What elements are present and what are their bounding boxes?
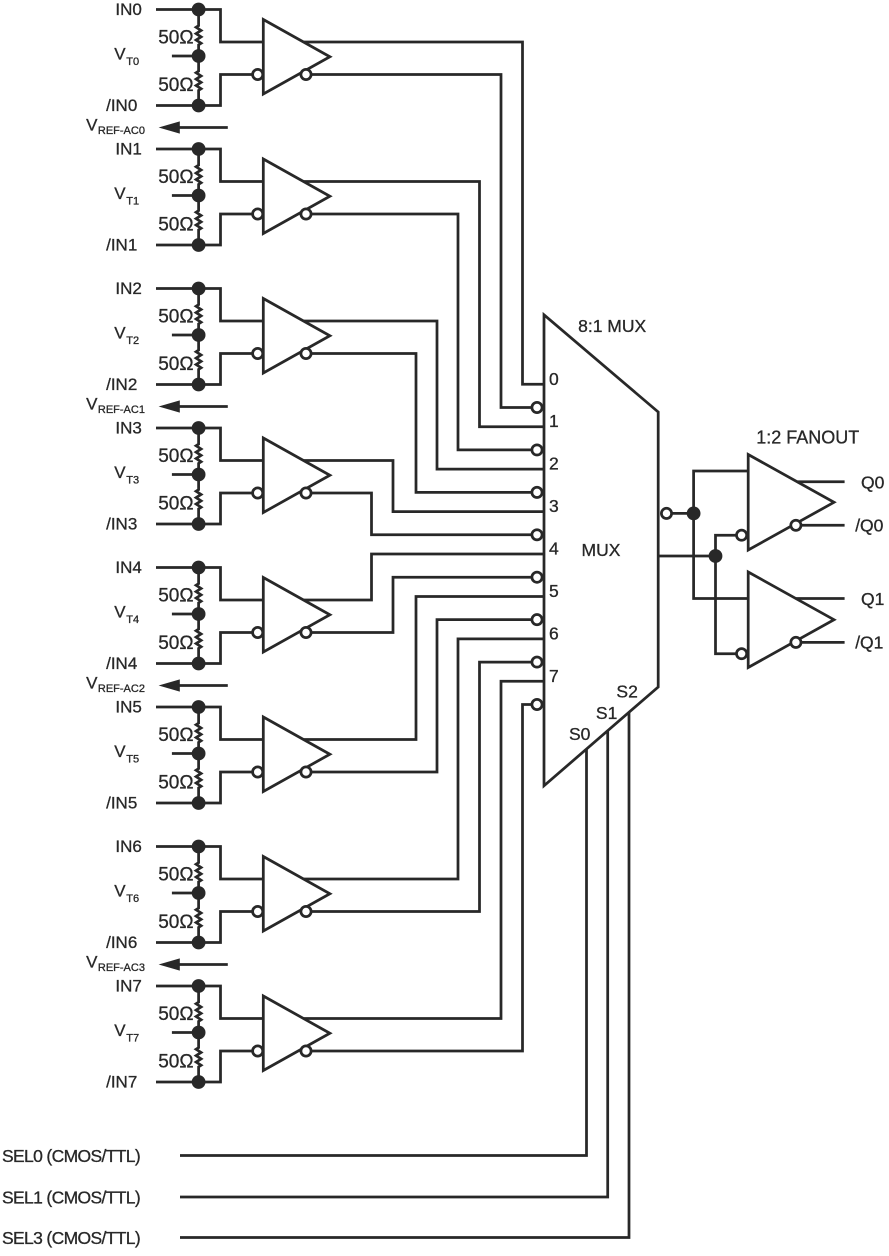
buffer U7 inverted output bubble xyxy=(301,767,311,777)
svg-text:V: V xyxy=(86,395,98,414)
svg-text:SEL0 (CMOS/TTL): SEL0 (CMOS/TTL) xyxy=(2,1146,140,1166)
svg-text:/IN7: /IN7 xyxy=(106,1072,137,1091)
node /IN4 junction xyxy=(192,657,206,671)
node VT0 junction xyxy=(192,49,206,63)
svg-text:REF-AC3: REF-AC3 xyxy=(98,962,145,974)
svg-text:Q0: Q0 xyxy=(861,472,885,492)
wire /IN6 to buffer U8 inverting input xyxy=(156,912,253,943)
buffer U3 inverted output bubble xyxy=(301,209,311,219)
svg-text:T0: T0 xyxy=(126,56,139,68)
wire node B to fanout buffer inverting inputs xyxy=(716,535,737,654)
fanout buffer U11 (Q1) xyxy=(748,572,834,668)
svg-text:V: V xyxy=(114,324,126,343)
wire Q0 output xyxy=(797,480,845,483)
resistor 50Ω lower ch3 xyxy=(196,475,201,525)
wire buffer U8 inverted output to mux input 6 complement xyxy=(311,662,542,911)
resistor 50Ω lower ch1 xyxy=(196,196,201,246)
wire VT5 stub xyxy=(172,752,199,755)
svg-text:S2: S2 xyxy=(616,682,637,702)
wire VT0 stub xyxy=(172,55,199,58)
node IN4 junction xyxy=(192,561,206,575)
wire mux true output to node B xyxy=(658,555,715,558)
fanout buffer U10 (Q0) xyxy=(748,455,834,551)
svg-text:IN6: IN6 xyxy=(115,837,141,856)
wire buffer U2 inverted output to mux input 0 complement xyxy=(311,75,542,408)
buffer U9 inverted output bubble xyxy=(301,1046,311,1056)
mux U1 body (8:1 MUX trapezoid) xyxy=(544,315,658,786)
wire buffer U6 inverted output to mux input 4 complement xyxy=(311,577,542,632)
buffer U4 (differential input buffer ch2) xyxy=(263,299,330,374)
svg-text:/IN2: /IN2 xyxy=(106,375,137,394)
svg-text:V: V xyxy=(114,742,126,761)
wire Q1 output xyxy=(796,597,845,600)
svg-text:MUX: MUX xyxy=(582,540,621,560)
svg-text:V: V xyxy=(86,674,98,693)
node IN0 junction xyxy=(192,3,206,17)
svg-text:50Ω: 50Ω xyxy=(158,586,193,607)
svg-text:1:2 FANOUT: 1:2 FANOUT xyxy=(756,427,859,447)
wire /IN3 to buffer U5 inverting input xyxy=(156,493,253,524)
buffer U4 inverted output bubble xyxy=(301,348,311,358)
buffer U2 inverted output bubble xyxy=(301,69,311,79)
buffer U8 (differential input buffer ch6) xyxy=(263,857,330,932)
wire buffer U9 inverted output to mux input 7 complement xyxy=(311,705,542,1051)
wire VT6 stub xyxy=(172,892,199,895)
wire SEL1 to mux S1 xyxy=(180,731,608,1197)
svg-text:V: V xyxy=(86,116,98,135)
wire VT7 stub xyxy=(172,1031,199,1034)
VREF-AC0 arrowhead xyxy=(159,121,180,133)
wire IN0 to buffer U2 noninverting input xyxy=(156,10,263,43)
svg-text:T6: T6 xyxy=(126,893,139,905)
svg-text:50Ω: 50Ω xyxy=(158,494,193,515)
wire VREF-AC1 arrow line xyxy=(177,405,228,408)
mux input 5 complement bubble xyxy=(532,615,542,625)
svg-text:50Ω: 50Ω xyxy=(158,725,193,746)
buffer U2 inverting input bubble xyxy=(253,69,263,79)
wire IN6 to buffer U8 noninverting input xyxy=(156,847,263,880)
svg-text:/IN5: /IN5 xyxy=(106,793,137,812)
wire VT3 stub xyxy=(172,473,199,476)
svg-text:SEL3 (CMOS/TTL): SEL3 (CMOS/TTL) xyxy=(2,1228,140,1248)
svg-text:T7: T7 xyxy=(126,1032,139,1044)
svg-text:4: 4 xyxy=(549,539,559,559)
resistor 50Ω upper ch0 xyxy=(196,10,201,57)
node A junction xyxy=(687,507,701,521)
node /IN5 junction xyxy=(192,796,206,810)
svg-text:IN3: IN3 xyxy=(115,418,141,437)
resistor 50Ω upper ch5 xyxy=(196,707,201,754)
buffer U7 (differential input buffer ch5) xyxy=(263,717,330,792)
resistor 50Ω lower ch2 xyxy=(196,335,201,385)
svg-text:IN5: IN5 xyxy=(115,697,141,716)
wire VT4 stub xyxy=(172,613,199,616)
svg-text:50Ω: 50Ω xyxy=(158,865,193,886)
wire /IN0 to buffer U2 inverting input xyxy=(156,75,253,106)
wire buffer U4 inverted output to mux input 2 complement xyxy=(311,354,542,493)
svg-text:IN7: IN7 xyxy=(115,976,141,995)
svg-text:/Q1: /Q1 xyxy=(855,633,883,653)
buffer U4 inverting input bubble xyxy=(253,348,263,358)
svg-text:50Ω: 50Ω xyxy=(158,773,193,794)
buffer U6 inverting input bubble xyxy=(253,627,263,637)
wire node A to fanout buffer inputs xyxy=(694,471,749,599)
svg-text:T3: T3 xyxy=(126,474,139,486)
svg-text:V: V xyxy=(114,1021,126,1040)
wire buffer U2 true output to mux input 0 xyxy=(304,42,545,384)
buffer U5 inverting input bubble xyxy=(253,488,263,498)
svg-text:T5: T5 xyxy=(126,753,139,765)
resistor 50Ω lower ch6 xyxy=(196,893,201,943)
resistor 50Ω lower ch5 xyxy=(196,754,201,804)
node IN6 junction xyxy=(192,840,206,854)
wire VREF-AC0 arrow line xyxy=(177,126,228,129)
wire IN2 to buffer U4 noninverting input xyxy=(156,289,263,322)
wire buffer U4 true output to mux input 2 xyxy=(304,321,545,469)
svg-text:REF-AC0: REF-AC0 xyxy=(98,125,145,137)
mux input 7 complement bubble xyxy=(532,699,542,709)
node VT6 junction xyxy=(192,886,206,900)
mux input 2 complement bubble xyxy=(532,487,542,497)
wire buffer U8 true output to mux input 6 xyxy=(304,639,545,879)
wire buffer U7 true output to mux input 5 xyxy=(304,596,545,739)
wire buffer U3 inverted output to mux input 1 complement xyxy=(311,214,542,450)
node /IN2 junction xyxy=(192,378,206,392)
node VT1 junction xyxy=(192,189,206,203)
wire /Q1 output xyxy=(801,641,845,644)
wire /IN5 to buffer U7 inverting input xyxy=(156,772,253,803)
wire VREF-AC3 arrow line xyxy=(177,963,228,966)
svg-text:V: V xyxy=(86,953,98,972)
svg-text:V: V xyxy=(114,184,126,203)
fanout buffer U11 inverted output bubble xyxy=(791,637,801,647)
svg-text:8:1 MUX: 8:1 MUX xyxy=(578,316,646,336)
buffer U9 inverting input bubble xyxy=(253,1046,263,1056)
svg-text:SEL1 (CMOS/TTL): SEL1 (CMOS/TTL) xyxy=(2,1188,140,1208)
wire VREF-AC2 arrow line xyxy=(177,684,228,687)
svg-text:REF-AC1: REF-AC1 xyxy=(98,404,145,416)
svg-text:S0: S0 xyxy=(569,724,591,744)
svg-text:0: 0 xyxy=(549,369,559,389)
svg-text:1: 1 xyxy=(549,411,559,431)
node /IN1 junction xyxy=(192,238,206,252)
fanout buffer U10 inverting input bubble xyxy=(737,530,747,540)
mux input 3 complement bubble xyxy=(532,530,542,540)
svg-text:2: 2 xyxy=(549,454,559,474)
wire /IN7 to buffer U9 inverting input xyxy=(156,1051,253,1082)
svg-text:7: 7 xyxy=(549,666,559,686)
wire buffer U9 true output to mux input 7 xyxy=(304,681,545,1018)
svg-text:IN4: IN4 xyxy=(115,558,141,577)
buffer U6 inverted output bubble xyxy=(301,627,311,637)
svg-text:50Ω: 50Ω xyxy=(158,307,193,328)
mux input 1 complement bubble xyxy=(532,445,542,455)
node VT5 junction xyxy=(192,747,206,761)
node /IN0 junction xyxy=(192,99,206,113)
wire mux inverted output to node A xyxy=(672,512,694,515)
svg-text:50Ω: 50Ω xyxy=(158,446,193,467)
node VT3 junction xyxy=(192,468,206,482)
svg-text:3: 3 xyxy=(549,496,559,516)
wire VT1 stub xyxy=(172,194,199,197)
node VT4 junction xyxy=(192,607,206,621)
svg-text:IN1: IN1 xyxy=(115,139,141,158)
node /IN6 junction xyxy=(192,936,206,950)
svg-text:/IN3: /IN3 xyxy=(106,514,137,533)
wire IN1 to buffer U3 noninverting input xyxy=(156,149,263,182)
svg-text:REF-AC2: REF-AC2 xyxy=(98,683,145,695)
mux input 6 complement bubble xyxy=(532,657,542,667)
svg-text:Q1: Q1 xyxy=(861,589,884,609)
svg-text:S1: S1 xyxy=(596,703,617,723)
resistor 50Ω upper ch6 xyxy=(196,847,201,894)
wire IN7 to buffer U9 noninverting input xyxy=(156,986,263,1019)
svg-text:50Ω: 50Ω xyxy=(158,75,193,96)
svg-text:T1: T1 xyxy=(126,195,139,207)
svg-text:5: 5 xyxy=(549,581,559,601)
svg-text:50Ω: 50Ω xyxy=(158,167,193,188)
VREF-AC1 arrowhead xyxy=(159,400,180,412)
svg-text:50Ω: 50Ω xyxy=(158,1004,193,1025)
buffer U6 (differential input buffer ch4) xyxy=(263,578,330,653)
buffer U2 (differential input buffer ch0) xyxy=(263,20,330,95)
svg-text:/IN6: /IN6 xyxy=(106,933,137,952)
node IN7 junction xyxy=(192,979,206,993)
wire buffer U7 inverted output to mux input 5 complement xyxy=(311,620,542,772)
resistor 50Ω upper ch7 xyxy=(196,986,201,1033)
svg-text:V: V xyxy=(114,882,126,901)
mux input 0 complement bubble xyxy=(532,402,542,412)
node /IN7 junction xyxy=(192,1075,206,1089)
VREF-AC2 arrowhead xyxy=(159,679,180,691)
wire buffer U5 true output to mux input 3 xyxy=(304,461,545,512)
wire /Q0 output xyxy=(801,524,845,527)
node IN5 junction xyxy=(192,700,206,714)
svg-text:50Ω: 50Ω xyxy=(158,1052,193,1073)
mux input 4 complement bubble xyxy=(532,572,542,582)
svg-text:50Ω: 50Ω xyxy=(158,912,193,933)
svg-text:IN2: IN2 xyxy=(115,279,141,298)
wire buffer U5 inverted output to mux input 3 complement xyxy=(311,493,542,535)
resistor 50Ω lower ch0 xyxy=(196,56,201,106)
resistor 50Ω upper ch1 xyxy=(196,149,201,196)
node IN2 junction xyxy=(192,282,206,296)
resistor 50Ω lower ch7 xyxy=(196,1033,201,1083)
buffer U5 (differential input buffer ch3) xyxy=(263,438,330,513)
wire SEL0 to mux S0 xyxy=(180,749,587,1156)
buffer U3 inverting input bubble xyxy=(253,209,263,219)
wire /IN4 to buffer U6 inverting input xyxy=(156,633,253,664)
fanout buffer U10 inverted output bubble xyxy=(791,520,801,530)
fanout buffer U11 inverting input bubble xyxy=(737,649,747,659)
svg-text:T2: T2 xyxy=(126,335,139,347)
wire SEL3 to mux S2 xyxy=(180,712,629,1237)
node IN1 junction xyxy=(192,142,206,156)
resistor 50Ω lower ch4 xyxy=(196,614,201,664)
svg-text:6: 6 xyxy=(549,623,559,643)
svg-text:/IN4: /IN4 xyxy=(106,654,137,673)
buffer U8 inverting input bubble xyxy=(253,906,263,916)
buffer U3 (differential input buffer ch1) xyxy=(263,159,330,234)
svg-text:T4: T4 xyxy=(126,614,139,626)
node B junction xyxy=(709,549,723,563)
buffer U7 inverting input bubble xyxy=(253,767,263,777)
svg-text:V: V xyxy=(114,45,126,64)
buffer U9 (differential input buffer ch7) xyxy=(263,996,330,1071)
wire buffer U6 true output to mux input 4 xyxy=(304,554,545,600)
wire VT2 stub xyxy=(172,334,199,337)
node /IN3 junction xyxy=(192,517,206,531)
wire /IN1 to buffer U3 inverting input xyxy=(156,214,253,245)
svg-text:IN0: IN0 xyxy=(115,0,141,19)
wire IN4 to buffer U6 noninverting input xyxy=(156,568,263,601)
buffer U5 inverted output bubble xyxy=(301,488,311,498)
wire buffer U3 true output to mux input 1 xyxy=(304,182,545,427)
node VT7 junction xyxy=(192,1026,206,1040)
svg-text:/Q0: /Q0 xyxy=(855,516,883,536)
resistor 50Ω upper ch4 xyxy=(196,568,201,615)
wire /IN2 to buffer U4 inverting input xyxy=(156,354,253,385)
svg-text:50Ω: 50Ω xyxy=(158,633,193,654)
wire IN3 to buffer U5 noninverting input xyxy=(156,428,263,461)
svg-text:50Ω: 50Ω xyxy=(158,28,193,49)
wire IN5 to buffer U7 noninverting input xyxy=(156,707,263,740)
node VT2 junction xyxy=(192,328,206,342)
resistor 50Ω upper ch2 xyxy=(196,289,201,336)
VREF-AC3 arrowhead xyxy=(159,958,180,970)
svg-text:50Ω: 50Ω xyxy=(158,215,193,236)
svg-text:/IN0: /IN0 xyxy=(106,96,137,115)
resistor 50Ω upper ch3 xyxy=(196,428,201,475)
svg-text:V: V xyxy=(114,463,126,482)
svg-text:50Ω: 50Ω xyxy=(158,354,193,375)
svg-text:V: V xyxy=(114,603,126,622)
buffer U8 inverted output bubble xyxy=(301,906,311,916)
mux inverted output bubble xyxy=(661,508,671,518)
svg-text:/IN1: /IN1 xyxy=(106,235,137,254)
node IN3 junction xyxy=(192,421,206,435)
